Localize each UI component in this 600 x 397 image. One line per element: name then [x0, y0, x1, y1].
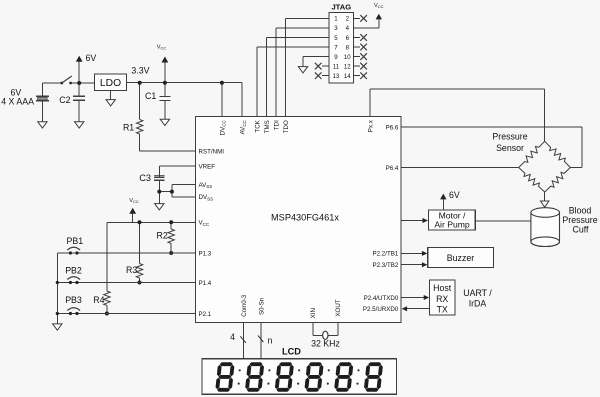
svg-text:P2.1: P2.1	[199, 311, 212, 318]
svg-text:Blood: Blood	[569, 206, 592, 216]
svg-text:P2.2/TB1: P2.2/TB1	[373, 251, 399, 258]
svg-text:10: 10	[344, 54, 351, 61]
svg-text:4 X AAA: 4 X AAA	[1, 97, 34, 107]
svg-text:LCD: LCD	[282, 346, 301, 356]
svg-text:TCK: TCK	[254, 119, 261, 132]
svg-text:P1.4: P1.4	[199, 280, 212, 287]
svg-text:R3: R3	[126, 265, 137, 275]
svg-text:6V: 6V	[86, 53, 97, 63]
svg-text:13: 13	[333, 73, 340, 80]
svg-text:Buzzer: Buzzer	[447, 253, 474, 263]
svg-text:Pressure: Pressure	[562, 215, 597, 225]
svg-text:PB3: PB3	[65, 295, 82, 305]
svg-text:Sensor: Sensor	[496, 143, 524, 153]
svg-text:12: 12	[344, 63, 351, 70]
svg-text:C1: C1	[145, 91, 156, 101]
svg-text:32 KHz: 32 KHz	[311, 339, 340, 349]
svg-text:Px.x: Px.x	[367, 119, 374, 132]
svg-text:S0-Sn: S0-Sn	[259, 297, 266, 315]
svg-text:11: 11	[333, 63, 340, 70]
svg-text:14: 14	[344, 73, 351, 80]
svg-text:Pressure: Pressure	[492, 132, 527, 142]
svg-text:P2.3/TB2: P2.3/TB2	[373, 262, 399, 269]
svg-text:6V: 6V	[449, 190, 460, 200]
svg-text:R1: R1	[123, 122, 134, 132]
svg-text:JTAG: JTAG	[331, 3, 351, 12]
svg-text:PB2: PB2	[65, 265, 82, 275]
svg-text:R4: R4	[93, 295, 104, 305]
svg-text:7: 7	[334, 44, 338, 51]
svg-text:Air Pump: Air Pump	[434, 219, 470, 229]
svg-text:RX: RX	[436, 294, 448, 304]
svg-text:3: 3	[334, 25, 338, 32]
svg-text:IrDA: IrDA	[469, 299, 487, 309]
svg-text:XOUT: XOUT	[335, 299, 342, 316]
svg-text:C3: C3	[139, 173, 151, 183]
svg-text:P6.6: P6.6	[386, 125, 399, 132]
svg-text:LDO: LDO	[100, 78, 121, 89]
svg-text:C2: C2	[59, 95, 70, 105]
svg-text:1: 1	[334, 16, 338, 23]
svg-text:Cuff: Cuff	[573, 225, 590, 235]
svg-text:Com0-3: Com0-3	[241, 294, 248, 317]
svg-text:UART /: UART /	[463, 288, 492, 298]
svg-text:XIN: XIN	[310, 308, 317, 318]
svg-text:4: 4	[230, 332, 235, 342]
svg-text:R2: R2	[157, 231, 168, 241]
svg-text:P2.4/UTXD0: P2.4/UTXD0	[364, 295, 399, 302]
svg-text:P2.5/URXD0: P2.5/URXD0	[363, 306, 399, 313]
svg-text:TMS: TMS	[264, 120, 271, 133]
svg-text:VCC: VCC	[157, 45, 167, 51]
svg-text:VCC: VCC	[374, 3, 384, 9]
svg-text:P6.4: P6.4	[386, 165, 399, 172]
svg-text:RST/NMI: RST/NMI	[199, 149, 225, 156]
svg-text:VREF: VREF	[199, 164, 216, 171]
svg-text:VCC: VCC	[129, 198, 139, 204]
svg-text:TX: TX	[437, 305, 448, 315]
svg-text:TDI: TDI	[273, 120, 280, 130]
svg-text:n: n	[268, 336, 273, 346]
svg-text:MSP430FG461x: MSP430FG461x	[271, 212, 339, 222]
svg-text:PB1: PB1	[67, 236, 84, 246]
svg-text:9: 9	[334, 54, 338, 61]
svg-text:P1.3: P1.3	[199, 250, 212, 257]
svg-text:3.3V: 3.3V	[131, 66, 149, 76]
svg-text:Host: Host	[433, 283, 452, 293]
svg-text:5: 5	[334, 35, 338, 42]
svg-text:TDO: TDO	[283, 120, 290, 133]
